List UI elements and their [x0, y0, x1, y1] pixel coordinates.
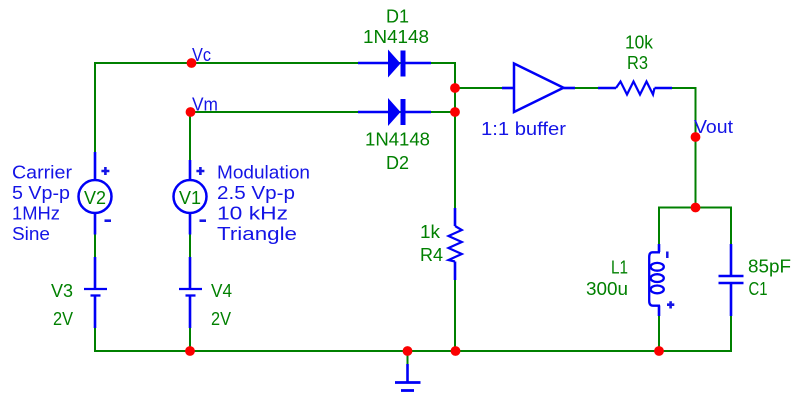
ground lead [406, 364, 409, 383]
label L1 designator [611, 258, 628, 278]
ground long bar [395, 381, 421, 384]
wire buffer output to R3 [575, 87, 599, 89]
wire V2 to V3 battery [94, 234, 96, 257]
voltage source V2 plus sign [101, 167, 109, 175]
node dot diode junction upper [450, 83, 460, 93]
label R3 value 10k [625, 33, 654, 53]
node label Vout [694, 117, 733, 137]
svg-text:Vout: Vout [694, 117, 733, 137]
resistor R4 zigzag body [449, 226, 462, 262]
voltage source V2 minus sign [105, 219, 112, 222]
label D2 designator [386, 153, 409, 173]
label Carrier line 1 [12, 163, 72, 183]
svg-text:Vm: Vm [192, 95, 218, 115]
voltage source V1 plus sign [196, 167, 204, 175]
inductor L1 plus sign [667, 301, 674, 308]
diode D1 cathode lead [405, 62, 431, 65]
label R4 designator [420, 245, 443, 265]
capacitor C1 top plate [719, 275, 744, 278]
svg-text:Sine: Sine [12, 224, 50, 244]
svg-text:2V: 2V [53, 309, 73, 329]
svg-text:5 Vp-p: 5 Vp-p [12, 183, 70, 203]
battery V3 lead top [94, 257, 97, 288]
label R4 value 1k [420, 222, 441, 242]
label L1 value 300u [586, 279, 628, 299]
battery V4 lead top [189, 257, 192, 288]
svg-text:1:1 buffer: 1:1 buffer [481, 119, 566, 139]
node dot bottom rail V1 branch [185, 346, 195, 356]
voltage source V2 lead bottom [94, 213, 97, 235]
svg-text:R3: R3 [627, 53, 648, 73]
node dot bottom rail ground [403, 346, 413, 356]
wire R3 to Vout corner and vertical down to tank [671, 88, 696, 208]
svg-text:2.5 Vp-p: 2.5 Vp-p [217, 183, 295, 203]
node dot Vc [187, 58, 197, 68]
svg-text:V2: V2 [84, 188, 106, 208]
inductor L1 top lead [658, 244, 661, 252]
op-amp U1 buffer output lead [564, 87, 576, 90]
label Carrier line 2 [12, 183, 70, 203]
battery V3 short plate [91, 294, 101, 296]
voltage source V2 lead top [94, 152, 97, 181]
label D1 value 1N4148 [363, 27, 429, 47]
inductor L1 minus sign (rotated vertical bar) [666, 252, 669, 259]
inductor L1 bottom lead [658, 306, 661, 317]
resistor R4 top lead [454, 208, 457, 226]
svg-text:D1: D1 [386, 7, 409, 27]
label Carrier line 3 [12, 204, 60, 224]
svg-text:10 kHz: 10 kHz [217, 204, 288, 224]
node label Vm [192, 95, 218, 115]
battery V3 lead bottom [94, 296, 97, 328]
svg-text:Triangle: Triangle [217, 224, 297, 244]
battery V3 long plate [84, 288, 107, 290]
diode D2 triangle [388, 98, 401, 126]
svg-text:1N4148: 1N4148 [365, 130, 430, 150]
svg-text:D2: D2 [386, 153, 409, 173]
node dot diode junction lower [450, 107, 460, 117]
wire ground stub [407, 351, 409, 364]
svg-text:L1: L1 [611, 258, 628, 278]
diode D1 triangle [388, 50, 401, 78]
capacitor C1 bottom plate [719, 282, 744, 285]
svg-text:10k: 10k [625, 33, 654, 53]
voltage source V1 circle [174, 180, 207, 213]
wire V1 column top vertical [189, 112, 191, 160]
resistor R3 zigzag body [616, 82, 655, 95]
battery V4 lead bottom [189, 296, 192, 328]
svg-text:300u: 300u [586, 279, 628, 299]
op-amp U1 buffer triangle [514, 64, 564, 113]
label V4 designator [211, 281, 232, 301]
svg-text:V4: V4 [211, 281, 232, 301]
label V4 value 2V [211, 309, 231, 329]
voltage source V1 lead bottom [189, 213, 192, 235]
svg-text:1k: 1k [420, 222, 441, 242]
node dot tank top [691, 203, 701, 213]
wire bottom ground rail [94, 350, 732, 352]
node dot Vm [186, 107, 196, 117]
node dot Vout [691, 132, 701, 142]
svg-text:85pF: 85pF [748, 257, 791, 277]
diode D2 cathode bar [401, 99, 406, 125]
svg-text:C1: C1 [749, 279, 768, 299]
wire V4 to bottom rail [189, 328, 191, 352]
label Modulation line 3 [217, 204, 288, 224]
svg-text:2V: 2V [211, 309, 231, 329]
label Modulation line 2 [217, 183, 295, 203]
svg-text:Carrier: Carrier [12, 163, 72, 183]
node dot bottom rail L1 branch [654, 346, 664, 356]
resistor R3 left lead [598, 87, 616, 90]
capacitor C1 bottom lead [730, 284, 733, 316]
resistor R3 right lead [655, 87, 673, 90]
diode D2 cathode lead [405, 111, 431, 114]
svg-text:Vc: Vc [192, 45, 211, 65]
label 1:1 buffer [481, 119, 566, 139]
svg-text:1N4148: 1N4148 [363, 27, 429, 47]
label D1 designator [386, 7, 409, 27]
op-amp U1 buffer input lead [502, 87, 515, 90]
voltage source V1 minus sign [200, 219, 207, 222]
wire V3 to bottom rail [94, 328, 96, 352]
inductor L1 loop 3 [651, 286, 664, 294]
label R3 designator [627, 53, 648, 73]
svg-text:V3: V3 [51, 281, 73, 301]
svg-text:1MHz: 1MHz [12, 204, 60, 224]
wire left vertical V2 column top [94, 62, 96, 152]
wire junction vertical x=455 from Vc corner down to R4 [454, 63, 456, 208]
node label Vc [192, 45, 211, 65]
wire V1 to V4 battery [189, 234, 191, 257]
wire tank top rail [658, 207, 732, 209]
node dot bottom rail R4 branch [451, 346, 461, 356]
resistor R4 bottom lead [454, 262, 457, 281]
label C1 designator [749, 279, 768, 299]
label Modulation line 4 [217, 224, 297, 244]
ground short bar [401, 389, 414, 392]
label V3 designator [51, 281, 73, 301]
label Modulation line 1 [217, 163, 310, 183]
inductor L1 loop 1 [651, 263, 664, 271]
wire C1 bottom vertical [730, 315, 732, 352]
inductor L1 body hooks and left edge [649, 252, 660, 305]
diode D1 cathode bar [401, 51, 406, 77]
voltage source V2 designator text [84, 188, 106, 208]
svg-text:R4: R4 [420, 245, 443, 265]
label Carrier line 4 [12, 224, 50, 244]
capacitor C1 top lead [730, 244, 733, 275]
battery V4 long plate [179, 288, 202, 290]
wire C1 top vertical [730, 208, 732, 245]
wire Vm horizontal from V1 column to D2 [190, 111, 456, 113]
wire buffer input [455, 87, 503, 89]
wire L1 top vertical [658, 208, 660, 245]
voltage source V1 designator text [179, 188, 201, 208]
battery V4 short plate [186, 294, 196, 296]
svg-text:Modulation: Modulation [217, 163, 310, 183]
wire R4 to bottom rail [454, 280, 456, 352]
diode D1 anode lead [358, 62, 389, 65]
label D2 value 1N4148 [365, 130, 430, 150]
inductor L1 loop 2 [651, 274, 664, 282]
label C1 value 85pF [748, 257, 791, 277]
wire Vc horizontal from V2 column to diode junction column [94, 62, 456, 64]
svg-text:V1: V1 [179, 188, 201, 208]
voltage source V2 circle [79, 180, 112, 213]
wire L1 bottom vertical [658, 314, 660, 351]
diode D2 anode lead [358, 111, 389, 114]
label V3 value 2V [53, 309, 73, 329]
voltage source V1 lead top [189, 160, 192, 181]
